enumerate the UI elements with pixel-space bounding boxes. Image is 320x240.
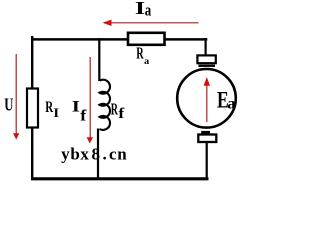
label R1 R — [45, 99, 54, 117]
current arrow If (red, pointing down) — [87, 57, 93, 144]
wire bottom horizontal — [31, 177, 209, 180]
svg-text:U: U — [4, 95, 13, 115]
voltage arrow U (red, pointing down) — [13, 54, 19, 140]
svg-text:a: a — [145, 2, 152, 20]
svg-text:R: R — [111, 100, 119, 118]
brush bottom contact bar — [201, 131, 210, 134]
wire left vertical upper — [31, 36, 33, 88]
inductor Rf coil (4 curls) — [100, 80, 111, 130]
label Rf R — [111, 100, 119, 118]
svg-text:I: I — [72, 98, 80, 116]
label Ea E — [217, 88, 229, 113]
wire left vertical lower — [31, 128, 33, 179]
label U — [4, 95, 13, 115]
label Ra R — [136, 45, 144, 63]
resistor R1 box — [27, 89, 38, 128]
label Ra sub a — [144, 56, 149, 67]
brush top contact bar — [198, 65, 215, 67]
resistor Ra box — [128, 33, 165, 45]
svg-text:f: f — [80, 106, 86, 124]
wire motor top lead — [205, 38, 207, 55]
svg-text:I: I — [53, 106, 59, 120]
svg-text:a: a — [227, 95, 235, 113]
wire middle branch lower — [97, 129, 99, 180]
svg-text:f: f — [118, 106, 125, 121]
brush bottom box — [198, 135, 216, 143]
label If sub f — [80, 106, 86, 124]
svg-text:R: R — [45, 99, 54, 117]
brush top box — [197, 55, 215, 63]
wire middle branch upper — [98, 38, 100, 81]
label Ia sub a — [145, 2, 152, 20]
label If I — [72, 98, 80, 116]
label R1 sub 1 — [53, 106, 59, 120]
svg-text:E: E — [217, 88, 229, 113]
motor armature circle M — [177, 69, 236, 128]
svg-text:ybx8.cn: ybx8.cn — [61, 144, 127, 163]
label Ea sub a — [227, 95, 235, 113]
emf arrow Ea (red, pointing up) — [204, 77, 210, 122]
current arrow Ia (red, pointing left) — [103, 20, 199, 26]
wire motor bottom lead — [206, 143, 208, 179]
svg-text:a: a — [144, 56, 149, 67]
svg-text:I: I — [135, 0, 146, 18]
label Ia I — [135, 0, 146, 18]
label Rf sub f — [118, 106, 125, 121]
wire top left segment — [31, 38, 127, 41]
svg-text:R: R — [136, 45, 144, 63]
wire top right segment — [165, 38, 207, 41]
